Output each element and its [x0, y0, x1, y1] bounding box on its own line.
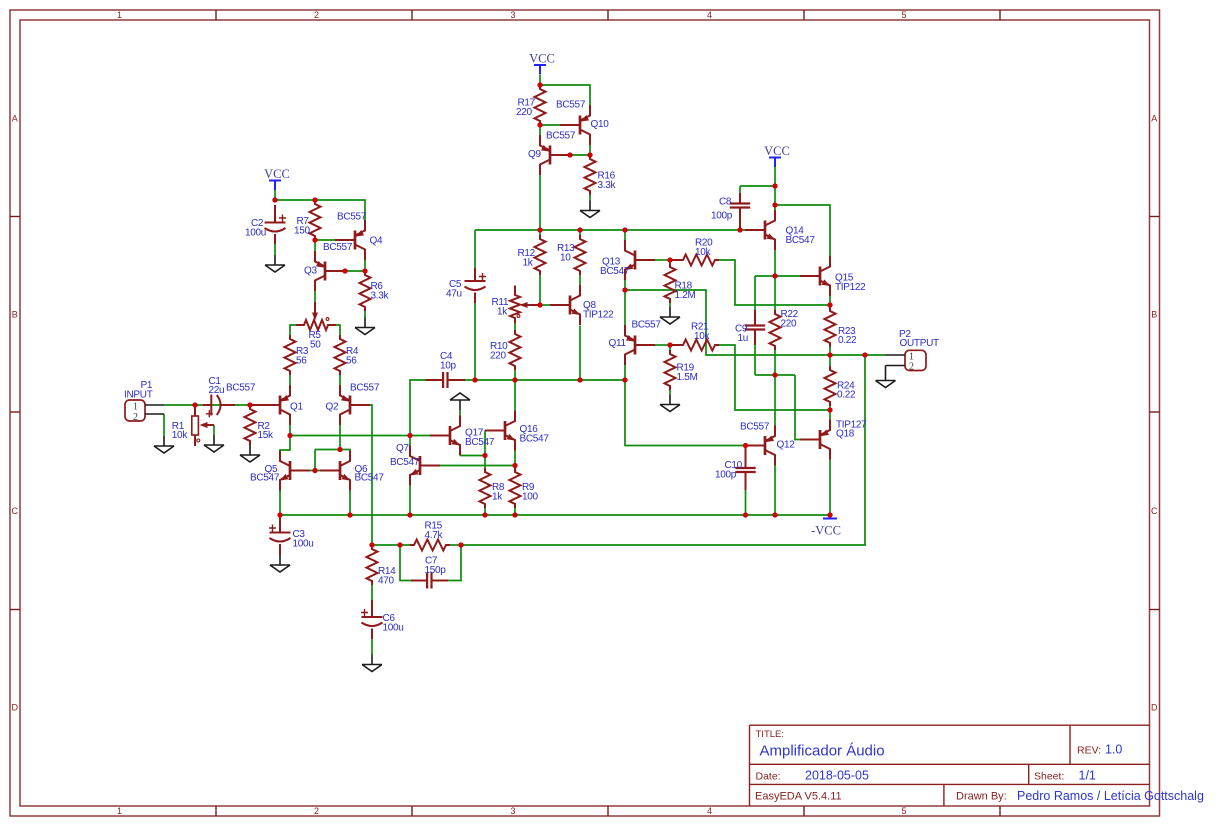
svg-text:BC547: BC547	[786, 235, 816, 246]
svg-text:150p: 150p	[425, 565, 447, 576]
svg-text:3: 3	[510, 10, 515, 20]
svg-text:Q7: Q7	[396, 443, 409, 454]
svg-text:A: A	[12, 114, 18, 124]
svg-text:10p: 10p	[440, 360, 457, 371]
svg-text:BC557: BC557	[632, 320, 662, 331]
svg-text:C: C	[1151, 506, 1158, 516]
svg-text:1u: 1u	[738, 333, 749, 344]
svg-text:2018-05-05: 2018-05-05	[805, 769, 869, 783]
svg-text:B: B	[1151, 310, 1157, 320]
svg-text:4.7k: 4.7k	[425, 530, 444, 541]
svg-text:1/1: 1/1	[1079, 769, 1096, 783]
svg-text:22u: 22u	[209, 385, 225, 396]
svg-text:D: D	[12, 703, 19, 713]
svg-text:0.22: 0.22	[837, 389, 856, 400]
svg-text:BC547: BC547	[465, 437, 495, 448]
svg-text:10: 10	[560, 252, 571, 263]
svg-text:10k: 10k	[172, 430, 189, 441]
svg-text:REV:: REV:	[1077, 745, 1101, 757]
svg-text:5: 5	[901, 806, 906, 816]
svg-text:TITLE:: TITLE:	[756, 729, 785, 740]
svg-text:Q18: Q18	[836, 429, 855, 440]
svg-text:Sheet:: Sheet:	[1034, 771, 1064, 783]
svg-text:150: 150	[294, 225, 311, 236]
svg-text:BC557: BC557	[226, 383, 256, 394]
svg-text:VCC: VCC	[764, 144, 790, 158]
svg-text:3.3k: 3.3k	[371, 290, 390, 301]
svg-text:1: 1	[117, 10, 122, 20]
svg-text:Amplificador Áudio: Amplificador Áudio	[760, 743, 885, 760]
svg-text:3.3k: 3.3k	[598, 180, 617, 191]
svg-text:TIP122: TIP122	[835, 282, 866, 293]
svg-text:BC557: BC557	[740, 422, 770, 433]
svg-text:4: 4	[707, 806, 712, 816]
svg-text:220: 220	[516, 107, 533, 118]
svg-text:50: 50	[310, 339, 321, 350]
svg-text:-VCC: -VCC	[811, 524, 841, 538]
svg-text:1.0: 1.0	[1105, 743, 1122, 757]
svg-text:EasyEDA V5.4.11: EasyEDA V5.4.11	[755, 791, 842, 803]
svg-text:2: 2	[909, 362, 914, 373]
svg-text:3: 3	[510, 806, 515, 816]
svg-text:BC547: BC547	[250, 473, 280, 484]
svg-text:47u: 47u	[446, 288, 462, 299]
svg-text:BC557: BC557	[546, 131, 576, 142]
svg-text:INPUT: INPUT	[124, 390, 153, 401]
svg-text:Q10: Q10	[591, 119, 610, 130]
svg-text:100u: 100u	[293, 538, 314, 549]
svg-text:VCC: VCC	[264, 167, 290, 181]
svg-text:BC547: BC547	[390, 457, 420, 468]
svg-text:OUTPUT: OUTPUT	[900, 338, 940, 349]
svg-text:1.2M: 1.2M	[675, 290, 696, 301]
svg-text:1.5M: 1.5M	[677, 372, 698, 383]
svg-text:1: 1	[117, 806, 122, 816]
svg-text:100u: 100u	[383, 622, 404, 633]
svg-text:A: A	[1151, 114, 1157, 124]
svg-text:100p: 100p	[711, 211, 733, 222]
svg-text:2: 2	[314, 10, 319, 20]
svg-text:56: 56	[296, 355, 307, 366]
svg-text:BC557: BC557	[556, 100, 586, 111]
svg-text:VCC: VCC	[529, 52, 555, 66]
svg-text:10k: 10k	[694, 331, 711, 342]
svg-text:Pedro Ramos / Letícia Gottscha: Pedro Ramos / Letícia Gottschalg	[1017, 789, 1204, 803]
svg-text:C: C	[12, 506, 19, 516]
svg-text:0.22: 0.22	[838, 335, 857, 346]
svg-text:1k: 1k	[497, 306, 508, 317]
svg-text:1k: 1k	[523, 257, 534, 268]
svg-text:5: 5	[901, 10, 906, 20]
svg-text:100u: 100u	[245, 228, 266, 239]
svg-text:BC547: BC547	[355, 473, 385, 484]
svg-text:4: 4	[707, 10, 712, 20]
svg-text:TIP122: TIP122	[583, 309, 614, 320]
svg-text:Date:: Date:	[756, 771, 781, 783]
svg-text:2: 2	[133, 412, 138, 423]
svg-text:C8: C8	[719, 197, 732, 208]
svg-text:2: 2	[314, 806, 319, 816]
svg-text:BC557: BC557	[350, 383, 380, 394]
svg-text:BC557: BC557	[337, 212, 367, 223]
svg-text:BC547: BC547	[600, 266, 630, 277]
svg-text:BC557: BC557	[323, 242, 353, 253]
svg-text:Q9: Q9	[528, 149, 541, 160]
svg-text:220: 220	[781, 318, 798, 329]
svg-text:10k: 10k	[695, 247, 712, 258]
svg-text:15k: 15k	[258, 430, 275, 441]
svg-text:Q11: Q11	[609, 338, 627, 349]
svg-text:Q3: Q3	[304, 266, 317, 277]
svg-text:100: 100	[522, 491, 539, 502]
svg-text:Q2: Q2	[326, 401, 339, 412]
svg-text:470: 470	[378, 575, 395, 586]
svg-text:100p: 100p	[715, 470, 737, 481]
svg-text:Q4: Q4	[370, 236, 383, 247]
svg-text:56: 56	[346, 355, 357, 366]
svg-text:Q1: Q1	[290, 401, 303, 412]
svg-text:D: D	[1151, 703, 1158, 713]
svg-text:220: 220	[490, 350, 507, 361]
svg-text:Q12: Q12	[777, 440, 796, 451]
svg-text:1k: 1k	[492, 491, 503, 502]
svg-text:B: B	[12, 310, 18, 320]
svg-text:BC547: BC547	[520, 433, 550, 444]
svg-text:Drawn By:: Drawn By:	[956, 791, 1007, 803]
